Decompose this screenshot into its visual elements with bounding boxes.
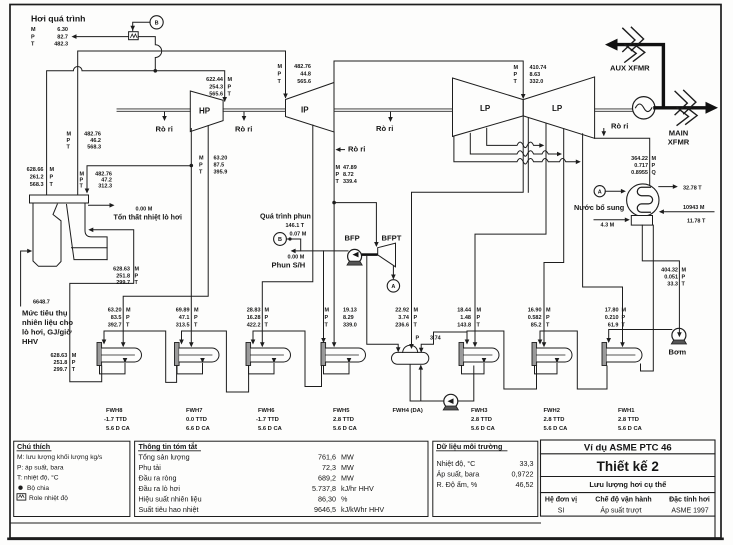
svg-text:Tổn thất nhiệt lò hơi: Tổn thất nhiệt lò hơi [114,214,183,222]
wire drain FWH7 [177,364,203,374]
svg-text:3.74: 3.74 [398,315,410,321]
svg-text:kJ/kWhr HHV: kJ/kWhr HHV [341,505,384,514]
leak arrow 4 IP gland [337,149,345,151]
svg-text:392.7: 392.7 [108,323,122,329]
svg-text:16.90: 16.90 [528,308,542,314]
label condenser inlet [631,156,656,176]
svg-text:Role nhiệt độ: Role nhiệt độ [29,495,68,502]
svg-text:0.0 TTD: 0.0 TTD [186,417,207,423]
svg-text:63.20: 63.20 [214,156,228,162]
svg-text:61.9: 61.9 [608,323,619,329]
label IP exhaust [336,165,358,185]
svg-text:6648.7: 6648.7 [33,300,50,306]
svg-text:628.63: 628.63 [113,267,130,273]
condenser [627,184,659,216]
svg-text:2.8 TTD: 2.8 TTD [618,417,639,423]
svg-text:5.6 D CA: 5.6 D CA [258,426,283,432]
svg-text:P: P [126,315,130,321]
svg-text:83.5: 83.5 [111,315,122,321]
label main steam at HP [206,77,232,98]
pump BFP [347,249,362,265]
label FWH2 name [544,408,569,432]
svg-text:P: P [652,163,656,169]
wire drain FWH8 [100,364,126,374]
svg-text:FWH4 (DA): FWH4 (DA) [393,408,423,414]
svg-text:339.0: 339.0 [343,323,357,329]
label FWH2 extraction [528,308,551,329]
svg-text:B: B [155,21,159,27]
svg-text:254.3: 254.3 [209,85,223,91]
svg-text:0.717: 0.717 [634,163,648,169]
svg-text:M: M [477,308,482,314]
svg-text:1.48: 1.48 [460,315,471,321]
label FWH7 extraction [176,308,199,329]
svg-text:A: A [391,284,395,290]
leak arrow 5 LP exhaust [603,129,605,135]
svg-text:P: P [72,360,76,366]
heater FWH8 [97,343,142,366]
svg-text:236.6: 236.6 [395,323,409,329]
label FWH4 name [393,408,423,414]
svg-text:628.63: 628.63 [50,353,67,359]
wire drain FWH6 [249,364,275,374]
svg-text:395.9: 395.9 [214,170,228,176]
wire LP extraction row 3 [454,137,579,164]
power lead AUX [617,45,663,108]
label FWH7 name [186,408,211,432]
wire HP extraction to FWH8 [123,126,208,346]
svg-text:2.8 TTD: 2.8 TTD [544,417,565,423]
svg-text:T: T [325,323,329,329]
svg-text:44.8: 44.8 [300,72,311,78]
svg-text:72,3: 72,3 [322,463,336,472]
svg-text:T: T [228,92,232,98]
label crossover [514,65,548,85]
label FWH3 extraction [457,308,481,329]
svg-text:M: M [67,132,72,138]
svg-text:T: nhiệt độ, °C: T: nhiệt độ, °C [17,474,59,482]
svg-text:Đầu ra ròng: Đầu ra ròng [139,474,177,483]
svg-text:M: M [194,308,199,314]
svg-text:568.3: 568.3 [87,145,101,151]
svg-text:146.1 T: 146.1 T [286,223,305,229]
svg-text:P: P [199,163,203,169]
svg-text:ASME 1997: ASME 1997 [671,508,708,515]
svg-text:313.5: 313.5 [176,323,190,329]
svg-text:28.83: 28.83 [247,308,261,314]
svg-text:87.5: 87.5 [214,163,225,169]
svg-text:T: T [126,323,130,329]
svg-text:Đầu ra lò hơi: Đầu ra lò hơi [139,484,181,493]
svg-text:33.3: 33.3 [667,282,678,288]
svg-text:5.6 D CA: 5.6 D CA [333,426,358,432]
svg-text:5.6 D CA: 5.6 D CA [544,426,569,432]
svg-text:P: P [278,72,282,78]
boiler [30,195,108,266]
svg-text:299.7: 299.7 [54,367,68,373]
svg-text:4.3 M: 4.3 M [601,223,615,229]
wire drain FWH2 [535,364,558,374]
svg-text:404.32: 404.32 [661,268,678,274]
svg-text:LP: LP [552,104,563,113]
svg-text:BFPT: BFPT [382,234,402,243]
svg-text:Áp suất, bara: Áp suất, bara [437,470,480,479]
svg-text:Thiết kế 2: Thiết kế 2 [597,459,659,474]
svg-text:FWH8: FWH8 [106,408,123,414]
svg-text:T: T [477,323,481,329]
svg-text:M: M [228,77,233,83]
svg-text:B: B [278,237,282,243]
summary box [135,441,428,516]
svg-text:HHV: HHV [22,337,39,346]
wire cold reheat: HP exhaust to boiler [87,129,191,193]
svg-text:85.2: 85.2 [531,323,542,329]
svg-text:568.3: 568.3 [30,182,44,188]
svg-text:299.7: 299.7 [116,280,130,286]
label FWH3 name [471,408,496,432]
svg-text:T: T [682,282,686,288]
wire hotwell to condensate pump [642,225,679,328]
generator G1 [633,97,655,119]
svg-text:364.22: 364.22 [631,156,648,162]
svg-text:482.76: 482.76 [84,132,101,138]
svg-text:0.8955: 0.8955 [631,170,648,176]
svg-text:kJ/hr HHV: kJ/hr HHV [341,484,374,493]
svg-text:T: T [80,184,84,190]
svg-text:M: M [135,267,140,273]
svg-text:T: T [31,42,35,48]
svg-text:P: P [194,315,198,321]
wire IP exhaust to FWH5 [333,132,335,346]
svg-text:482.76: 482.76 [294,64,311,70]
svg-text:-1.7 TTD: -1.7 TTD [104,417,127,423]
svg-text:63.20: 63.20 [108,308,122,314]
svg-text:P: P [546,315,550,321]
svg-text:M: M [546,308,551,314]
label cold reheat [80,172,113,190]
svg-text:Ví dụ ASME PTC 46: Ví dụ ASME PTC 46 [584,443,672,454]
svg-text:P: P [416,336,420,342]
label FWH5 name [333,408,358,432]
svg-text:46.2: 46.2 [90,138,101,144]
label boiler outlet [27,167,55,188]
svg-text:T: T [199,170,203,176]
svg-text:565.6: 565.6 [209,92,223,98]
svg-text:143.8: 143.8 [457,323,471,329]
wire hot reheat: boiler to IP inlet [78,51,286,195]
svg-text:HP: HP [199,107,211,116]
wire drain FWH5 [324,364,350,374]
svg-text:6.6 D CA: 6.6 D CA [186,426,211,432]
svg-text:R. Độ ẩm, %: R. Độ ẩm, % [437,480,478,489]
svg-text:5.737,8: 5.737,8 [312,484,336,493]
wire condensate to FWH1 [609,330,672,342]
svg-text:M: M [265,308,270,314]
svg-text:M: M [682,268,687,274]
wire feed frame FWH1 to FWH2 [540,331,607,389]
turbine HP [190,91,223,132]
wire LP tap to FWH1 [583,134,623,346]
sample point A1 [387,280,399,292]
svg-text:Chế độ vận hành: Chế độ vận hành [595,496,651,504]
svg-text:Rò rỉ: Rò rỉ [348,145,365,154]
leak arrow 2 [243,112,245,119]
svg-text:0.051: 0.051 [664,275,678,281]
svg-text:M: M [278,64,283,70]
svg-text:0.07 M: 0.07 M [290,232,307,238]
wire LP exhaust hood to condenser [595,138,650,185]
svg-text:FWH1: FWH1 [618,408,635,414]
svg-text:M: M [414,308,419,314]
pump condensate [671,328,686,344]
wire BFPT steam [334,203,376,246]
svg-text:nhiên liệu cho: nhiên liệu cho [22,318,73,327]
wire BFP discharge and SH spray [293,250,349,252]
svg-text:IP: IP [301,106,309,115]
heater FWH1 [602,343,642,366]
heater FWH7 [175,343,220,366]
label feedwater at boiler [113,267,139,287]
svg-text:Mức tiêu thụ: Mức tiêu thụ [22,309,68,318]
svg-text:SI: SI [558,508,565,515]
svg-text:BFP: BFP [345,234,360,243]
label FWH8 name [104,408,131,432]
wire LP tap to FWH3 [475,124,546,346]
wire cold reheat extraction to FWH7 [190,166,192,346]
environment data box [433,441,538,516]
svg-text:T: T [72,367,76,373]
svg-text:6.30: 6.30 [57,27,68,33]
label hot reheat at boiler [67,132,102,151]
coupling BFP-BFPT [362,253,378,256]
svg-text:339.4: 339.4 [343,179,358,185]
wire fuel input [21,251,31,306]
svg-text:A: A [598,189,602,195]
wire cooling water out [659,186,676,188]
svg-text:Thông tin tóm tắt: Thông tin tóm tắt [139,442,198,451]
svg-text:P: P [325,315,329,321]
heater FWH6 [246,343,291,366]
svg-text:M: M [72,353,77,359]
svg-text:Rò rỉ: Rò rỉ [235,125,252,134]
svg-text:Bộ chia: Bộ chia [27,485,49,492]
svg-text:2.8 TTD: 2.8 TTD [333,417,354,423]
svg-text:47.89: 47.89 [343,165,357,171]
svg-text:XFMR: XFMR [668,138,690,147]
label FWH5 extraction [325,308,357,329]
legend box [14,441,130,516]
svg-text:16.28: 16.28 [247,315,261,321]
svg-text:5.6 D CA: 5.6 D CA [471,426,496,432]
svg-text:251.8: 251.8 [116,273,130,279]
svg-text:P: P [67,138,71,144]
svg-text:410.74: 410.74 [530,65,548,71]
svg-text:Đặc tính hơi: Đặc tính hơi [669,497,710,504]
svg-text:Chú thích: Chú thích [17,442,50,451]
svg-text:0.582: 0.582 [528,315,542,321]
svg-text:Nước bổ sung: Nước bổ sung [574,203,624,212]
svg-text:P: P [228,85,232,91]
wire main steam: boiler drum to HP inlet [47,67,225,196]
label FWH6 extraction [247,308,270,329]
wire B2 branch [286,239,300,251]
label condensate [661,268,686,288]
svg-text:MAIN: MAIN [669,129,688,138]
svg-text:312.3: 312.3 [98,184,112,190]
svg-text:T: T [50,182,54,188]
svg-text:Hiệu suất nhiên liệu: Hiệu suất nhiên liệu [139,495,202,504]
svg-text:33,3: 33,3 [520,459,534,468]
sample point A2 [594,186,605,197]
wire IP extraction to FWH6 [262,125,313,346]
svg-text:761,6: 761,6 [318,453,336,462]
svg-text:Q: Q [652,170,657,176]
svg-text:M: M [126,308,131,314]
wire BFPT exhaust [392,266,394,278]
wire final feedwater to boiler [70,230,134,382]
svg-text:10943 M: 10943 M [683,205,705,211]
svg-text:Nhiệt độ, °C: Nhiệt độ, °C [437,459,476,468]
wire LP extraction row 2 [470,133,560,156]
wire BFP suction from DA [367,256,398,352]
turbine IP [286,83,335,133]
wire to sample point B [133,22,150,31]
svg-text:FWH6: FWH6 [258,408,275,414]
svg-text:P: P [135,273,139,279]
svg-text:17.80: 17.80 [605,308,619,314]
svg-text:MW: MW [341,463,354,472]
svg-text:22.92: 22.92 [395,308,409,314]
svg-text:P: áp suất, bara: P: áp suất, bara [17,462,64,471]
svg-text:0,9722: 0,9722 [512,470,534,479]
svg-text:T: T [194,323,198,329]
svg-text:T: T [514,79,518,85]
svg-text:Suất tiêu hao nhiệt: Suất tiêu hao nhiệt [139,505,199,514]
sample point B2 [274,233,287,246]
svg-text:T: T [336,179,340,185]
svg-text:5.6 D CA: 5.6 D CA [106,426,131,432]
svg-text:0.210: 0.210 [605,315,619,321]
svg-text:628.66: 628.66 [27,167,44,173]
svg-text:332.0: 332.0 [530,79,544,85]
turbine LP left [453,78,524,136]
wire feed frame FWH5 to FWH6 [253,331,322,387]
svg-text:Rò rỉ: Rò rỉ [156,125,173,134]
svg-text:Bơm: Bơm [669,348,687,357]
label deaerator inlet [395,308,418,329]
svg-text:M: lưu lượng khối lượng kg/s: M: lưu lượng khối lượng kg/s [17,452,103,461]
wire LP tap to FWH2 [544,129,564,346]
svg-text:P: P [336,172,340,178]
svg-text:82.7: 82.7 [57,35,68,41]
wire deaerator to booster pump to FWH3 [410,365,474,402]
svg-text:M: M [652,156,657,162]
svg-text:T: T [546,323,550,329]
wire feed frame FWH2 to FWH3 [434,331,537,389]
transformer MAIN XFMR [675,90,697,125]
svg-text:565.6: 565.6 [297,79,311,85]
svg-text:Hệ đơn vị: Hệ đơn vị [545,497,577,504]
svg-text:M: M [31,27,36,33]
heater FWH2 [532,343,572,366]
svg-text:Áp suất trượt: Áp suất trượt [600,506,641,515]
wire A2 to condenser [605,190,624,192]
wire drain FWH3 [462,364,485,374]
svg-text:T: T [622,323,626,329]
svg-text:%: % [341,495,348,504]
svg-text:Tổng sản lượng: Tổng sản lượng [139,453,190,462]
svg-text:P: P [514,72,518,78]
wire crossover IP to LP [334,61,523,98]
svg-text:19.13: 19.13 [343,308,357,314]
sample point B1 [150,16,163,29]
svg-text:Rò rỉ: Rò rỉ [611,122,628,131]
svg-text:8.72: 8.72 [343,172,354,178]
svg-text:251.8: 251.8 [54,360,68,366]
transformer AUX XFMR [623,27,645,62]
svg-text:47.1: 47.1 [179,315,190,321]
wire FWH1 drain to condenser [641,225,654,371]
svg-text:Lưu lượng hơi cụ thể: Lưu lượng hơi cụ thể [589,480,666,489]
svg-text:69.89: 69.89 [176,308,190,314]
svg-text:Quá trình phun: Quá trình phun [260,213,311,221]
svg-text:46,52: 46,52 [516,480,534,489]
svg-text:AUX XFMR: AUX XFMR [610,64,650,73]
wire deaerator vent to FWH3 feed line [421,332,433,352]
svg-text:Phun S/H: Phun S/H [272,261,306,270]
turbine BFPT [378,243,396,267]
valve temperature relay [129,32,139,40]
shaft line [117,109,633,111]
svg-text:M: M [514,65,519,71]
heater FWH5 [321,343,366,366]
svg-text:MW: MW [341,474,354,483]
svg-text:Dữ liệu môi trường: Dữ liệu môi trường [437,442,503,451]
label feedwater at FWH8 [50,353,76,373]
svg-text:T: T [67,145,71,151]
svg-text:32.78 T: 32.78 T [683,186,702,192]
svg-text:T: T [265,323,269,329]
leak arrow 3 [390,112,392,120]
svg-text:FWH2: FWH2 [544,408,560,414]
turbine LP right [523,77,594,138]
svg-text:P: P [682,275,686,281]
wire feed frame FWH6 to FWH7 [182,331,249,392]
svg-text:LP: LP [480,104,491,113]
svg-text:689,2: 689,2 [318,474,336,483]
svg-text:261.2: 261.2 [30,175,44,181]
svg-text:FWH7: FWH7 [186,408,202,414]
svg-text:0.00 M: 0.00 M [136,207,153,213]
svg-text:3.74: 3.74 [430,336,442,342]
svg-text:T: T [414,323,418,329]
deaerator FWH4 [392,345,429,364]
svg-text:P: P [31,35,35,41]
svg-text:Rò rỉ: Rò rỉ [376,124,393,133]
svg-text:Phụ tải: Phụ tải [139,463,162,472]
title block [541,440,716,538]
svg-text:M: M [336,165,341,171]
wire LP extraction row 1 [487,128,543,147]
power lead MAIN [655,106,707,109]
svg-text:11.78 T: 11.78 T [687,219,706,225]
svg-text:18.44: 18.44 [457,308,472,314]
svg-text:FWH5: FWH5 [333,408,350,414]
wire BFP feed to FWH5 [323,251,325,342]
svg-text:9646,5: 9646,5 [314,505,336,514]
wire feed frame FWH7 to FWH8 [104,331,177,382]
wire LP center tap to deaerator [412,116,529,347]
